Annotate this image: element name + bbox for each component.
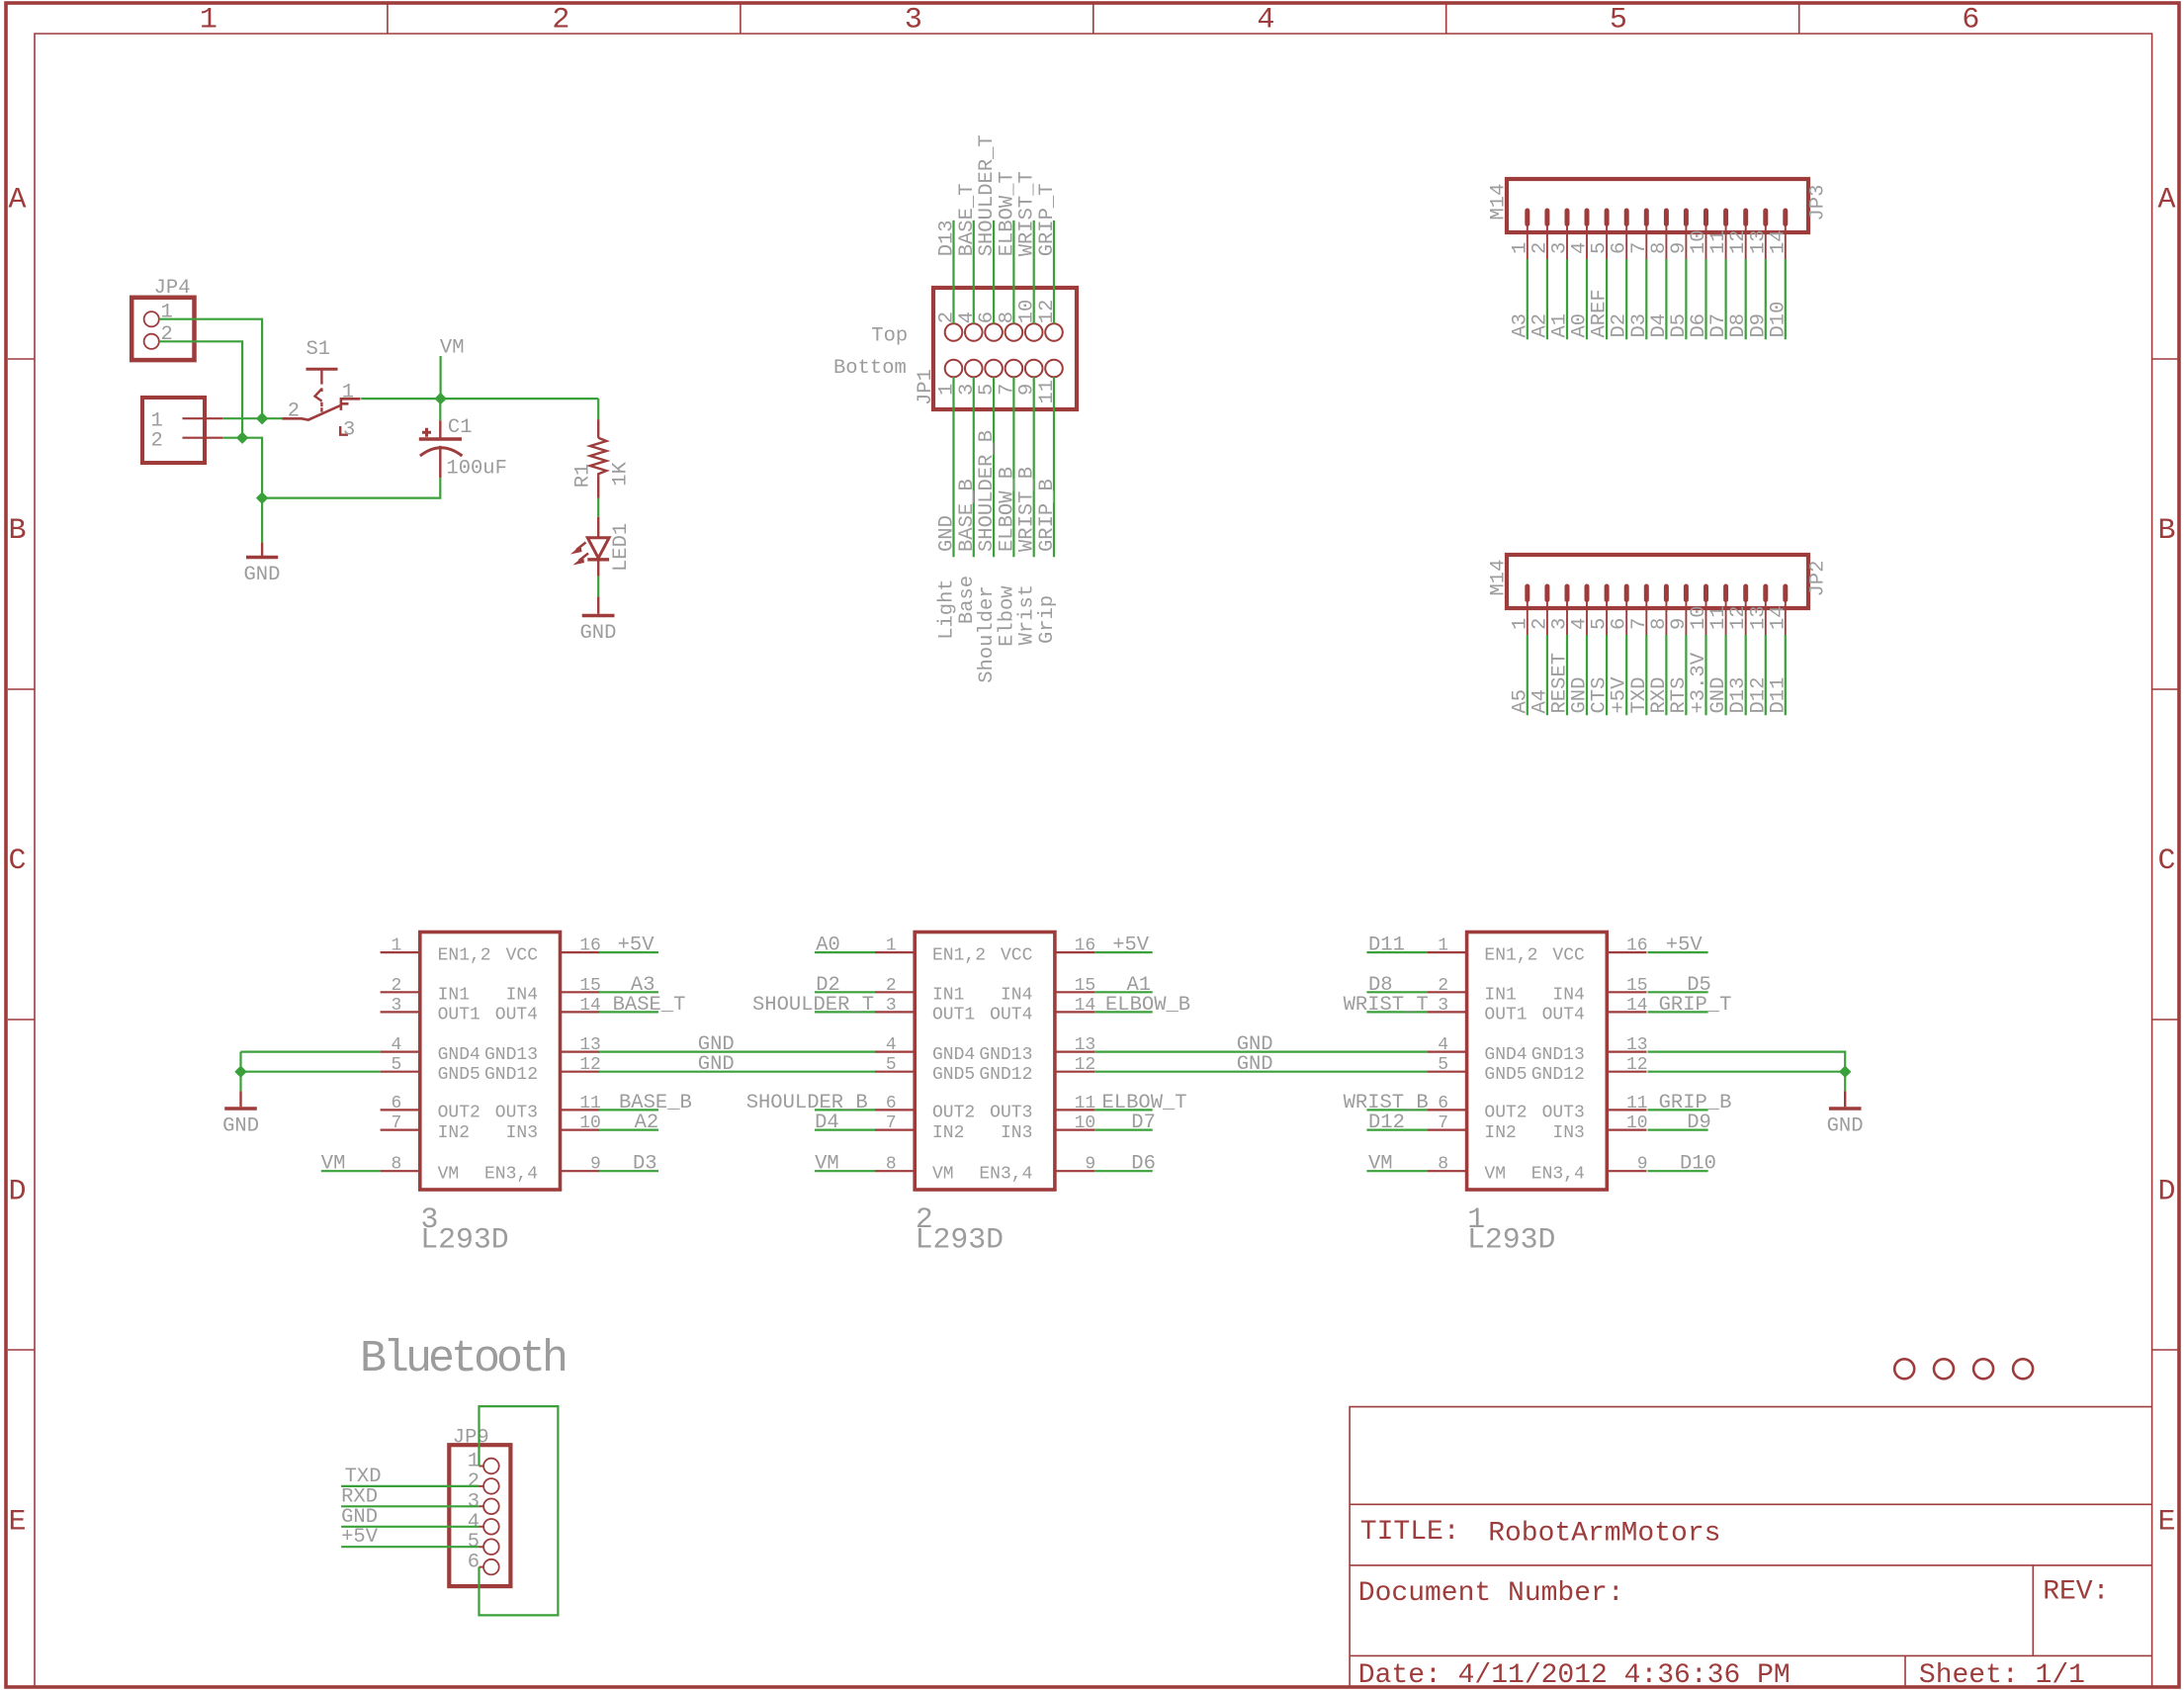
- svg-text:VM: VM: [321, 1153, 346, 1176]
- svg-text:VM: VM: [440, 337, 465, 360]
- svg-text:6: 6: [468, 1552, 480, 1574]
- LED LED1: [597, 517, 599, 538]
- connector X2 (2-pin): [142, 398, 205, 463]
- svg-text:Grip: Grip: [1036, 595, 1059, 644]
- svg-text:GND: GND: [580, 622, 617, 645]
- svg-text:VCC: VCC: [506, 945, 539, 965]
- svg-text:14: 14: [1626, 996, 1648, 1016]
- svg-text:EN1,2: EN1,2: [932, 945, 986, 965]
- svg-text:D4: D4: [815, 1112, 839, 1134]
- ground GND1: [261, 543, 263, 556]
- svg-text:TITLE:: TITLE:: [1360, 1517, 1460, 1548]
- svg-text:GND5: GND5: [1484, 1065, 1527, 1085]
- wire D12 U1.7: [1366, 1128, 1427, 1130]
- wire ELBOW_T U2.11: [1094, 1109, 1153, 1111]
- frame row dividers right: [2152, 359, 2178, 1350]
- svg-text:GND5: GND5: [438, 1065, 480, 1085]
- svg-text:4: 4: [1257, 4, 1274, 38]
- connector JP3: [1507, 179, 1808, 232]
- wire GND: [341, 1526, 479, 1528]
- svg-text:GRIP_T: GRIP_T: [1659, 994, 1732, 1017]
- svg-text:6: 6: [886, 1094, 897, 1113]
- svg-text:D10: D10: [1680, 1153, 1716, 1176]
- svg-text:1: 1: [886, 936, 897, 956]
- JP2 pin leads: [1528, 600, 1786, 635]
- wire TXD: [341, 1485, 479, 1487]
- svg-text:SHOULDER_B: SHOULDER_B: [746, 1092, 868, 1114]
- svg-text:15: 15: [1075, 976, 1096, 996]
- svg-text:2: 2: [886, 976, 897, 996]
- junction GND right: [1839, 1066, 1851, 1078]
- svg-text:16: 16: [1075, 936, 1096, 956]
- JP1 bottom pins: [945, 360, 1063, 378]
- svg-text:D12: D12: [1368, 1112, 1405, 1134]
- wire +5V: [341, 1546, 479, 1548]
- frame column ticks: [388, 4, 1799, 34]
- svg-text:OUT1: OUT1: [932, 1006, 975, 1025]
- svg-text:M14: M14: [1488, 560, 1511, 596]
- svg-text:1: 1: [1438, 936, 1448, 956]
- JP3 pin contact bars: [1528, 211, 1786, 224]
- junction GND left: [234, 1066, 246, 1078]
- frame column numbers: [200, 4, 1980, 38]
- svg-text:GND: GND: [698, 1053, 735, 1076]
- svg-text:A: A: [8, 184, 26, 218]
- svg-text:GND4: GND4: [1484, 1045, 1527, 1065]
- JP1 top pin numbers: [936, 300, 1060, 324]
- svg-text:1: 1: [391, 936, 401, 956]
- JP2 pin contact bars: [1528, 586, 1786, 600]
- svg-text:GND: GND: [1827, 1115, 1864, 1138]
- svg-text:Date: 4/11/2012 4:36:36 PM: Date: 4/11/2012 4:36:36 PM: [1358, 1660, 1791, 1690]
- svg-text:D7: D7: [1131, 1112, 1156, 1134]
- svg-text:6: 6: [1438, 1094, 1448, 1113]
- svg-text:VM: VM: [815, 1153, 839, 1176]
- svg-text:IN3: IN3: [1001, 1123, 1032, 1143]
- wire X2.1 to J1: [222, 417, 282, 419]
- svg-text:B: B: [2157, 514, 2175, 548]
- svg-text:14: 14: [1767, 229, 1790, 254]
- svg-text:10: 10: [1075, 1113, 1096, 1133]
- svg-text:Document Number:: Document Number:: [1358, 1578, 1624, 1609]
- wire VM U2.8: [815, 1170, 875, 1172]
- wire GND bus U1.12: [1648, 1071, 1846, 1073]
- JP9 pin numbers: [468, 1451, 480, 1574]
- svg-text:VM: VM: [1368, 1153, 1393, 1176]
- svg-text:GND5: GND5: [932, 1065, 975, 1085]
- svg-text:3: 3: [391, 996, 401, 1016]
- wire A1 U2.15: [1094, 991, 1153, 993]
- svg-text:+5V: +5V: [1666, 934, 1704, 957]
- svg-text:4: 4: [886, 1035, 897, 1055]
- svg-text:D: D: [2157, 1175, 2175, 1208]
- svg-text:VCC: VCC: [1552, 945, 1585, 965]
- junction J3: [256, 491, 268, 503]
- wire GND bus U1.13: [1648, 1052, 1846, 1092]
- svg-text:D6: D6: [1131, 1153, 1156, 1176]
- wire +5V U2.16: [1094, 951, 1153, 953]
- svg-text:6: 6: [391, 1094, 401, 1113]
- svg-text:EN3,4: EN3,4: [1531, 1164, 1585, 1184]
- wire D8 U1.2: [1366, 991, 1427, 993]
- svg-text:VM: VM: [932, 1164, 954, 1184]
- wire GRIP_T U1.14: [1648, 1011, 1708, 1013]
- wire RXD: [341, 1505, 479, 1507]
- svg-text:B: B: [8, 514, 26, 548]
- svg-text:A0: A0: [816, 934, 840, 957]
- svg-text:GND13: GND13: [484, 1045, 538, 1065]
- svg-text:IN3: IN3: [506, 1123, 538, 1143]
- svg-text:S1: S1: [306, 338, 331, 361]
- wire BASE_B U3.11: [599, 1109, 658, 1111]
- svg-text:D: D: [8, 1175, 26, 1208]
- svg-text:2: 2: [288, 400, 300, 423]
- svg-text:OUT2: OUT2: [932, 1104, 975, 1123]
- svg-text:JP3: JP3: [1807, 185, 1830, 222]
- JP1 bottom wires: [954, 377, 1055, 557]
- U2 pin names: [932, 945, 1033, 1184]
- svg-text:D11: D11: [1767, 677, 1790, 714]
- svg-text:IN2: IN2: [438, 1123, 470, 1143]
- svg-text:C1: C1: [448, 416, 473, 439]
- wire D5 U1.15: [1648, 991, 1708, 993]
- U3 pin names: [438, 945, 539, 1184]
- JP3 pin numbers: [1509, 229, 1790, 254]
- svg-text:WRIST_T: WRIST_T: [1344, 994, 1429, 1017]
- svg-text:11: 11: [1626, 1094, 1648, 1113]
- svg-text:IN4: IN4: [1552, 986, 1584, 1006]
- svg-text:13: 13: [1626, 1035, 1648, 1055]
- wire D9 U1.10: [1648, 1128, 1708, 1130]
- svg-text:D9: D9: [1687, 1112, 1711, 1134]
- U1 pin names: [1484, 945, 1585, 1184]
- svg-text:15: 15: [579, 976, 601, 996]
- svg-text:EN3,4: EN3,4: [979, 1164, 1032, 1184]
- IC U2 L293D: [915, 933, 1055, 1191]
- svg-text:2: 2: [151, 429, 163, 452]
- wire SHOULDER_T U2.3: [815, 1011, 875, 1013]
- X2 pin 2: [183, 437, 223, 439]
- U2 pin stubs: [875, 952, 1094, 1171]
- X2 pin 1: [183, 417, 223, 419]
- svg-text:6: 6: [1962, 4, 1979, 38]
- svg-text:GND4: GND4: [438, 1045, 480, 1065]
- svg-text:EN3,4: EN3,4: [484, 1164, 538, 1184]
- U3 pin numbers: [391, 936, 600, 1175]
- wire GND U2.13 to U1.4: [1094, 1050, 1427, 1052]
- svg-text:BASE_T: BASE_T: [613, 994, 686, 1017]
- svg-text:5: 5: [391, 1055, 401, 1075]
- svg-text:OUT1: OUT1: [1484, 1006, 1527, 1025]
- wire D6 U2.9: [1094, 1170, 1153, 1172]
- svg-text:GND: GND: [1237, 1053, 1273, 1076]
- svg-text:OUT3: OUT3: [495, 1104, 538, 1123]
- wire BASE_T U3.14: [599, 1011, 658, 1013]
- svg-text:RobotArmMotors: RobotArmMotors: [1488, 1519, 1720, 1550]
- svg-text:C: C: [8, 845, 26, 878]
- wire GND U2.12 to U1.5: [1094, 1071, 1427, 1073]
- resistor R1: [597, 399, 599, 419]
- wire WRIST_B U1.6: [1366, 1109, 1427, 1111]
- svg-text:D3: D3: [633, 1153, 657, 1176]
- frame row letters: [8, 184, 2175, 1540]
- title block frame: [1350, 1407, 2152, 1688]
- svg-text:4: 4: [1438, 1035, 1448, 1055]
- JP1 top pins: [945, 323, 1063, 341]
- svg-text:REV:: REV:: [2043, 1577, 2109, 1608]
- svg-text:A: A: [2157, 184, 2175, 218]
- junction J1: [256, 412, 268, 424]
- svg-text:Bluetooth: Bluetooth: [360, 1334, 566, 1384]
- svg-text:7: 7: [391, 1113, 401, 1133]
- svg-text:EN1,2: EN1,2: [438, 945, 491, 965]
- svg-text:D10: D10: [1767, 302, 1790, 338]
- JP4 pin 2: [144, 334, 159, 349]
- svg-text:R1: R1: [572, 464, 595, 489]
- JP3 pin leads: [1528, 224, 1786, 259]
- svg-text:OUT4: OUT4: [1542, 1006, 1585, 1025]
- svg-text:+5V: +5V: [1112, 934, 1150, 957]
- svg-text:5: 5: [886, 1055, 897, 1075]
- svg-text:10: 10: [1626, 1113, 1648, 1133]
- svg-text:13: 13: [1075, 1035, 1096, 1055]
- svg-text:3: 3: [343, 418, 355, 441]
- svg-text:1: 1: [200, 4, 218, 38]
- svg-text:GND: GND: [244, 564, 281, 586]
- svg-text:5: 5: [1438, 1055, 1448, 1075]
- svg-text:12: 12: [1626, 1055, 1648, 1075]
- svg-text:2: 2: [1438, 976, 1448, 996]
- svg-text:IN1: IN1: [932, 986, 964, 1006]
- wire VM: [440, 356, 442, 399]
- svg-text:11: 11: [579, 1094, 601, 1113]
- wire D7 U2.10: [1094, 1128, 1153, 1130]
- svg-text:GND13: GND13: [979, 1045, 1032, 1065]
- svg-text:M14: M14: [1488, 184, 1511, 221]
- svg-text:3: 3: [1438, 996, 1448, 1016]
- svg-text:5: 5: [1610, 4, 1627, 38]
- svg-text:GND: GND: [222, 1115, 259, 1138]
- svg-text:Sheet: 1/1: Sheet: 1/1: [1919, 1660, 2085, 1690]
- wire A2 U3.10: [599, 1128, 658, 1130]
- svg-text:SHOULDER_T: SHOULDER_T: [752, 994, 874, 1017]
- capacitor C1: [439, 399, 441, 420]
- svg-text:IN4: IN4: [506, 986, 538, 1006]
- svg-text:11: 11: [1036, 380, 1059, 404]
- wire GND bus U3.5: [241, 1071, 381, 1073]
- svg-text:L293D: L293D: [1467, 1223, 1555, 1257]
- svg-text:OUT1: OUT1: [438, 1006, 480, 1025]
- svg-text:+5V: +5V: [618, 934, 655, 957]
- wire GRIP_B U1.11: [1648, 1109, 1708, 1111]
- wire LED1 to GND: [597, 577, 599, 597]
- JP4 pin 1: [144, 311, 159, 326]
- svg-text:7: 7: [1438, 1113, 1448, 1133]
- svg-text:IN1: IN1: [438, 986, 470, 1006]
- svg-text:8: 8: [391, 1155, 401, 1175]
- connector JP2: [1507, 555, 1808, 608]
- svg-text:IN4: IN4: [1001, 986, 1032, 1006]
- svg-text:GND13: GND13: [1531, 1045, 1585, 1065]
- svg-text:GRIP_B: GRIP_B: [1036, 479, 1059, 552]
- svg-text:OUT4: OUT4: [990, 1006, 1032, 1025]
- U1 pin stubs: [1427, 952, 1646, 1171]
- svg-text:3: 3: [905, 4, 922, 38]
- svg-text:OUT2: OUT2: [438, 1104, 480, 1123]
- svg-text:ELBOW_B: ELBOW_B: [1105, 994, 1190, 1017]
- svg-text:15: 15: [1626, 976, 1648, 996]
- svg-text:1: 1: [342, 382, 354, 404]
- svg-text:12: 12: [1075, 1055, 1096, 1075]
- JP1 bottom net labels: [936, 430, 1060, 552]
- wire VM to U3.8: [321, 1170, 381, 1172]
- JP3 net labels: [1509, 289, 1790, 337]
- wire D4 U2.7: [815, 1128, 875, 1130]
- svg-text:D11: D11: [1368, 934, 1405, 957]
- svg-text:14: 14: [1075, 996, 1096, 1016]
- IC U3 L293D: [420, 933, 561, 1191]
- wire GND U3.12 to U2.5: [599, 1071, 875, 1073]
- svg-text:E: E: [2157, 1506, 2175, 1540]
- svg-text:12: 12: [579, 1055, 601, 1075]
- wires JP2: [1528, 635, 1786, 715]
- svg-text:10: 10: [579, 1113, 601, 1133]
- wire A0 U2.1: [815, 951, 875, 953]
- svg-text:9: 9: [1637, 1155, 1648, 1175]
- JP1 top net labels: [936, 134, 1060, 256]
- IC U1 L293D: [1467, 933, 1608, 1191]
- svg-text:14: 14: [579, 996, 601, 1016]
- svg-text:8: 8: [1438, 1155, 1448, 1175]
- JP2 pin numbers: [1509, 605, 1790, 630]
- svg-text:2: 2: [161, 323, 173, 346]
- wire JP4.2 to J2: [159, 341, 242, 437]
- wire +5V U1.16: [1648, 951, 1708, 953]
- wire D2 U2.2: [815, 991, 875, 993]
- svg-text:OUT4: OUT4: [495, 1006, 538, 1025]
- svg-text:16: 16: [579, 936, 601, 956]
- ground GND3: [239, 1091, 241, 1107]
- JP1 bottom pin numbers: [936, 380, 1060, 404]
- svg-text:E: E: [8, 1506, 26, 1540]
- svg-text:+5V: +5V: [341, 1526, 379, 1549]
- wire R1 to LED1: [597, 498, 599, 517]
- wire SHOULDER_B U2.6: [815, 1109, 875, 1111]
- svg-text:VM: VM: [438, 1164, 460, 1184]
- svg-text:C: C: [2157, 845, 2175, 878]
- wire JP4.1 to J1: [159, 319, 262, 419]
- svg-text:Bottom: Bottom: [833, 357, 907, 380]
- svg-text:1K: 1K: [610, 461, 633, 486]
- wire GND bus down: [239, 1052, 241, 1092]
- wire D3 U3.9: [599, 1170, 658, 1172]
- svg-text:OUT3: OUT3: [990, 1104, 1032, 1123]
- svg-text:VCC: VCC: [1001, 945, 1033, 965]
- svg-text:14: 14: [1767, 605, 1790, 630]
- junction VM: [434, 393, 446, 404]
- JP2 net labels: [1509, 652, 1790, 713]
- frame row dividers left: [8, 359, 35, 1350]
- wire D10 U1.9: [1648, 1170, 1708, 1172]
- wire WRIST_T U1.3: [1366, 1011, 1427, 1013]
- wire D11 U1.1: [1366, 951, 1427, 953]
- svg-text:GND12: GND12: [1531, 1065, 1585, 1085]
- svg-text:LED1: LED1: [610, 523, 633, 572]
- svg-text:2: 2: [552, 4, 569, 38]
- svg-text:12: 12: [1036, 300, 1059, 324]
- svg-text:OUT2: OUT2: [1484, 1104, 1527, 1123]
- svg-text:GND4: GND4: [932, 1045, 975, 1065]
- JP1 function labels: [936, 576, 1060, 683]
- JP9 pins: [483, 1459, 499, 1575]
- svg-text:8: 8: [886, 1155, 897, 1175]
- svg-text:9: 9: [1085, 1155, 1095, 1175]
- svg-text:A2: A2: [635, 1112, 659, 1134]
- wire JP9.1 to JP9.6 loop: [480, 1406, 559, 1615]
- JP1 top wires: [954, 221, 1055, 323]
- wire ELBOW_B U2.14: [1094, 1011, 1153, 1013]
- U2 pin numbers: [886, 936, 1095, 1175]
- ground GND4: [1844, 1091, 1846, 1107]
- svg-text:GND12: GND12: [979, 1065, 1032, 1085]
- svg-text:IN3: IN3: [1552, 1123, 1584, 1143]
- svg-text:IN2: IN2: [1484, 1123, 1516, 1143]
- wire GND U3.13 to U2.4: [599, 1050, 875, 1052]
- wire GND bus U3.4: [241, 1050, 381, 1052]
- wire X2.2 to corner: [222, 438, 262, 498]
- wire S1.1 to R1: [361, 398, 598, 400]
- U1 pin numbers: [1438, 936, 1647, 1175]
- svg-text:OUT3: OUT3: [1542, 1104, 1585, 1123]
- U3 pin stubs: [381, 952, 600, 1171]
- wire A3 U3.15: [599, 991, 658, 993]
- svg-text:100uF: 100uF: [446, 457, 507, 480]
- mounting holes: [1894, 1359, 2033, 1379]
- svg-text:GND12: GND12: [484, 1065, 538, 1085]
- svg-text:7: 7: [886, 1113, 897, 1133]
- svg-text:VM: VM: [1484, 1164, 1506, 1184]
- svg-text:GRIP_T: GRIP_T: [1036, 183, 1059, 256]
- ground GND2: [597, 596, 599, 613]
- junction J2: [236, 432, 248, 444]
- svg-text:IN1: IN1: [1484, 986, 1516, 1006]
- wire VM U1.8: [1366, 1170, 1427, 1172]
- svg-text:L293D: L293D: [420, 1223, 508, 1257]
- svg-text:IN2: IN2: [932, 1123, 964, 1143]
- svg-text:13: 13: [579, 1035, 601, 1055]
- svg-text:JP2: JP2: [1807, 561, 1830, 597]
- svg-text:16: 16: [1626, 936, 1648, 956]
- wires JP3: [1528, 259, 1786, 339]
- svg-text:EN1,2: EN1,2: [1484, 945, 1537, 965]
- wire C1 to J3: [262, 478, 440, 497]
- svg-text:4: 4: [391, 1035, 401, 1055]
- svg-text:3: 3: [886, 996, 897, 1016]
- svg-text:2: 2: [391, 976, 401, 996]
- svg-text:Top: Top: [871, 325, 908, 348]
- wire +5V U3.16: [599, 951, 658, 953]
- svg-text:1: 1: [161, 301, 173, 323]
- svg-text:11: 11: [1075, 1094, 1096, 1113]
- svg-text:L293D: L293D: [916, 1223, 1004, 1257]
- wire J3 down: [261, 498, 263, 543]
